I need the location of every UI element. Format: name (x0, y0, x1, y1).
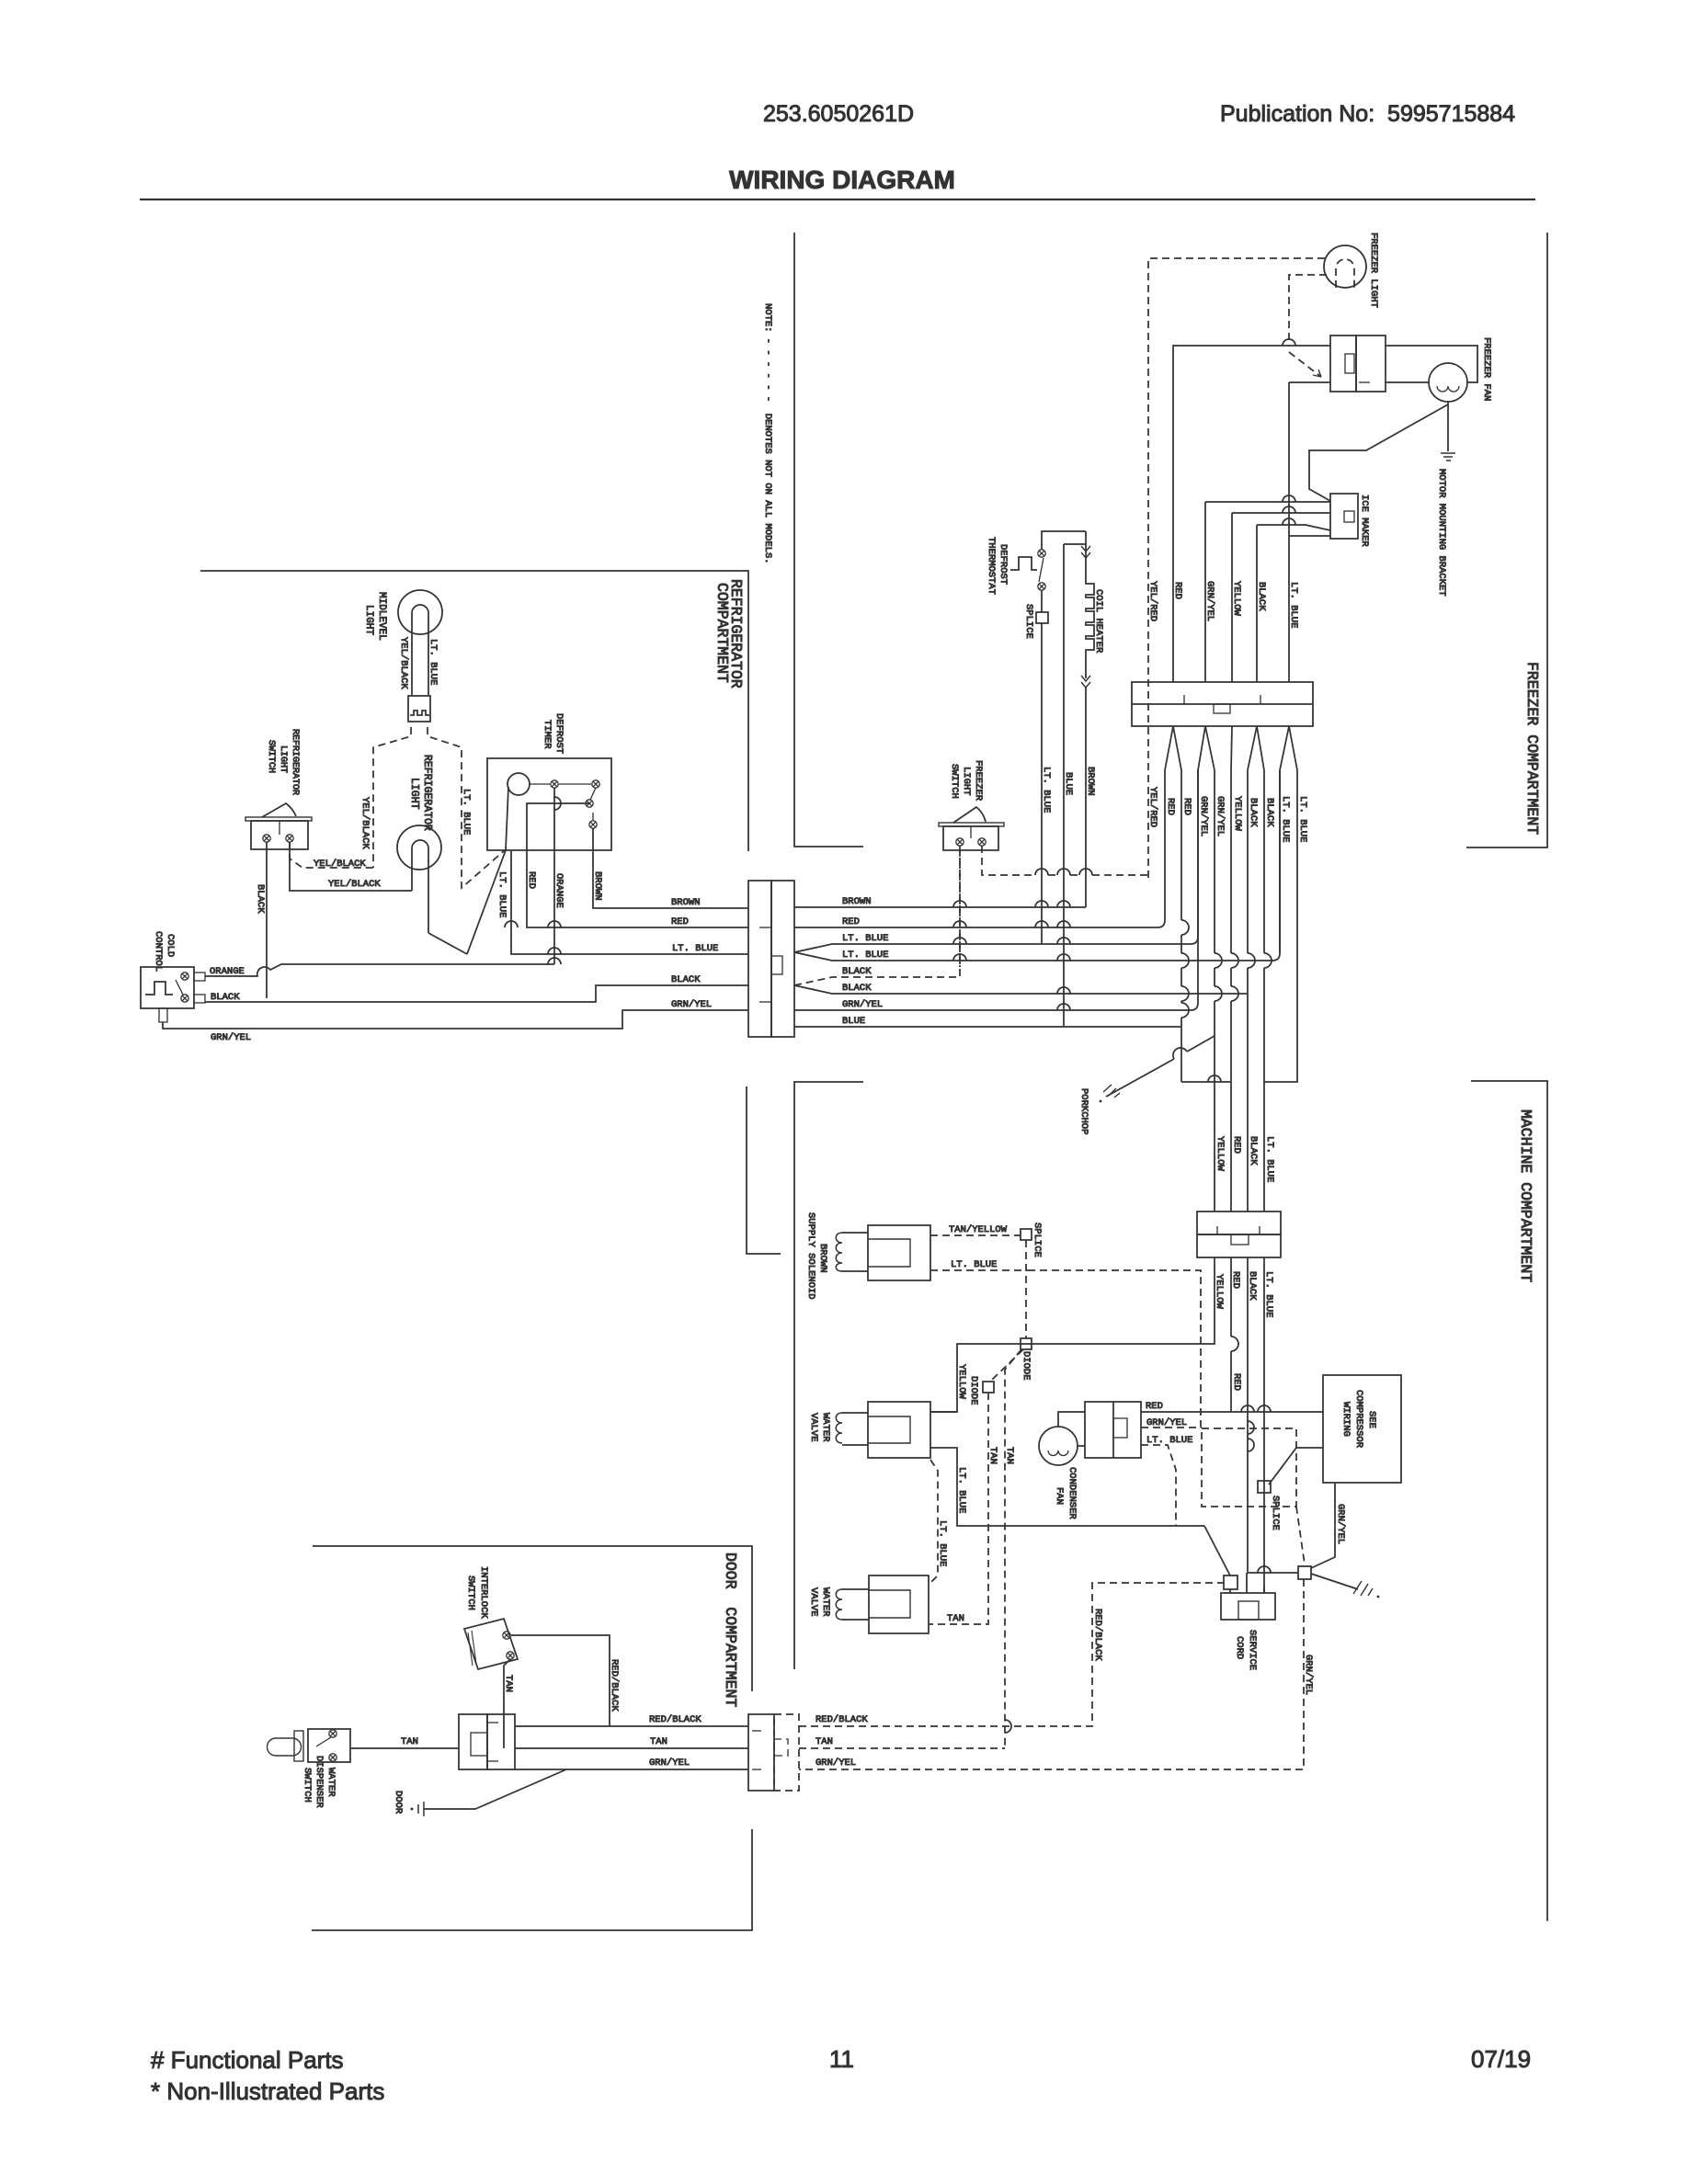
door connector (459, 1714, 487, 1769)
wire BROWN bus right of connector (794, 906, 1086, 908)
dashed wire YEL/BLACK switch to midlevel light (290, 842, 373, 868)
splice near service cord (1298, 1566, 1311, 1579)
svg-text:WATERVALVE: WATERVALVE (808, 1413, 831, 1442)
freezer light bulb (1324, 245, 1366, 288)
dashed wire freezer light to fan connector (1289, 275, 1327, 346)
svg-text:LT. BLUE: LT. BLUE (672, 943, 718, 954)
svg-text:REFRIGERATORCOMPARTMENT: REFRIGERATORCOMPARTMENT (713, 579, 745, 688)
wire RED bus right of connector (794, 770, 1165, 927)
svg-text:YEL/BLACK: YEL/BLACK (359, 797, 371, 849)
jog arcs where vertical wires cross LT. BLUE bus (1181, 953, 1189, 968)
svg-text:ORANGE: ORANGE (210, 966, 245, 977)
dashed wire TAN diode to water valve (932, 1393, 988, 1624)
splice TAN/YELLOW (1021, 1229, 1032, 1240)
svg-text:WIRING DIAGRAM: WIRING DIAGRAM (729, 165, 955, 194)
svg-text:LT. BLUE: LT. BLUE (1041, 767, 1052, 813)
jog arcs where vertical wires cross RED bus (1181, 920, 1189, 935)
svg-text:ORANGE: ORANGE (553, 873, 565, 908)
freezer fan motor (1429, 363, 1467, 402)
dashed wire LT. BLUE water valve to lower water valve (930, 1460, 938, 1583)
svg-text:RED: RED (1181, 798, 1192, 815)
interlock switch (464, 1619, 518, 1669)
svg-text:BLACK: BLACK (671, 974, 701, 985)
wire BLACK lower connector to service cord (1248, 1257, 1298, 1573)
defrost thermostat (1010, 557, 1037, 570)
dashed wire TAN right of door connector (799, 1747, 1005, 1749)
wire LT. BLUE freezer fan connector to ice maker and harness (1289, 381, 1330, 383)
dashed wire freezer light switch right lead to YEL/RED (982, 846, 1035, 875)
dashed wire BLACK fork to freezer light switch (794, 845, 960, 985)
splice at service cord left pin (1224, 1575, 1237, 1589)
svg-text:LT. BLUE: LT. BLUE (951, 1259, 997, 1270)
supply solenoid connector (868, 1225, 930, 1280)
svg-text:RED: RED (526, 871, 537, 889)
refrigerator compartment boundary (200, 571, 748, 851)
svg-text:DIODE: DIODE (968, 1376, 979, 1405)
svg-text:DOOR COMPARTMENT: DOOR COMPARTMENT (722, 1553, 739, 1707)
wire LT. BLUE splice to bus (1041, 623, 1043, 944)
water valve connector (lower) (869, 1575, 929, 1633)
defrost timer terminals (551, 780, 558, 788)
svg-text:BLACK: BLACK (1248, 798, 1259, 827)
dashed wire LT. BLUE condenser fan connector (1141, 1445, 1176, 1526)
wire staircase to lower connector RED pin (1181, 1081, 1231, 1083)
machine compartment divider line right (794, 1082, 863, 1669)
svg-text:YEL/BLACK: YEL/BLACK (328, 879, 381, 890)
svg-text:MOTOR MOUNTING BRACKET: MOTOR MOUNTING BRACKET (1436, 469, 1447, 597)
svg-text:GRN/YEL: GRN/YEL (1146, 1417, 1187, 1428)
wire ORANGE vertical from timer (553, 788, 555, 964)
svg-text:FREEZER COMPARTMENT: FREEZER COMPARTMENT (1523, 662, 1541, 835)
svg-text:LT. BLUE: LT. BLUE (1280, 796, 1291, 842)
svg-text:LT. BLUE: LT. BLUE (461, 789, 472, 835)
door compartment boundary bottom (312, 1829, 752, 1930)
title underline rule (140, 199, 1535, 200)
svg-text:LT. BLUE: LT. BLUE (1146, 1435, 1192, 1446)
svg-text:BLACK: BLACK (842, 983, 872, 994)
defrost timer (487, 758, 611, 850)
splice on LT. BLUE wire (1258, 1481, 1271, 1493)
water valve coil (lower) (836, 1589, 842, 1620)
freezer harness connector block (1132, 682, 1313, 726)
svg-text:BROWN: BROWN (1085, 767, 1096, 796)
door-machine connector solid half (748, 1714, 774, 1791)
svg-text:BLACK: BLACK (1264, 798, 1275, 827)
dashed wire TAN branch to door (1005, 1349, 1021, 1748)
svg-text:BROWN: BROWN (817, 1244, 828, 1273)
svg-text:BLACK: BLACK (842, 966, 872, 977)
wire LT. BLUE refrigerator light to bus (428, 933, 467, 954)
dashed wire YEL/RED freezer light (1148, 258, 1325, 878)
svg-text:WATERVALVE: WATERVALVE (808, 1587, 831, 1617)
svg-text:YEL/BLACK: YEL/BLACK (398, 637, 409, 689)
wire RED/BLACK interlock switch (511, 1635, 610, 1726)
wire RED lower connector to condenser fan (1141, 1257, 1231, 1412)
wire GRN/YEL door connector to right connector (515, 1769, 748, 1770)
svg-text:RED/BLACK: RED/BLACK (1092, 1609, 1103, 1661)
midlevel light bulb (398, 590, 442, 634)
svg-text:RED: RED (1165, 798, 1176, 815)
water valve connector (upper) (868, 1402, 930, 1458)
ground motor mounting bracket (1441, 452, 1455, 454)
dashed GRN/YEL loop rectangle (1202, 1428, 1296, 1507)
svg-text:BROWN: BROWN (842, 896, 872, 907)
svg-text:GRN/YEL: GRN/YEL (211, 1032, 251, 1043)
svg-text:BROWN: BROWN (592, 871, 603, 901)
svg-text:YELLOW: YELLOW (1215, 1136, 1226, 1172)
svg-text:RED: RED (1172, 582, 1183, 599)
dashed wire TAN/YELLOW solenoid to splice (930, 1234, 1021, 1236)
dashed wire RED/BLACK door to service cord splice (799, 1583, 1224, 1726)
wire RED pair below connector (1165, 726, 1173, 770)
wire YELLOW below connector to lower connector (1231, 726, 1232, 1211)
wire freezer fan to motor mounting bracket ground (1447, 402, 1449, 451)
svg-text:253.6050261D: 253.6050261D (763, 101, 914, 127)
svg-text:BLUE: BLUE (1063, 772, 1074, 795)
wire RED condenser fan to compressor (1231, 1411, 1323, 1413)
wire LT. BLUE lower connector to service cord (1263, 1257, 1265, 1593)
svg-text:DOOR: DOOR (393, 1791, 404, 1814)
svg-text:GRN/YEL: GRN/YEL (1335, 1504, 1346, 1544)
wire LT. BLUE defrost timer to bus (511, 850, 748, 954)
wire BLACK solid fork right of connector (794, 985, 1248, 994)
freezer compartment boundary (1466, 233, 1547, 847)
wire YELLOW water valve top lead (930, 1411, 957, 1413)
svg-text:RED: RED (1146, 1401, 1163, 1412)
svg-text:TAN: TAN (815, 1736, 833, 1747)
svg-text:YEL/RED: YEL/RED (1147, 787, 1158, 827)
svg-text:RED/BLACK: RED/BLACK (649, 1714, 701, 1725)
wire BLUE to coil heater top (1064, 544, 1086, 1027)
svg-text:LT. BLUE: LT. BLUE (496, 871, 508, 917)
svg-text:DEFROSTTIMER: DEFROSTTIMER (542, 713, 565, 754)
svg-text:# Functional Parts: # Functional Parts (151, 2046, 344, 2074)
machine compartment divider line left (747, 1086, 781, 1254)
svg-text:GRN/YEL: GRN/YEL (1198, 796, 1209, 836)
wire splice to compressor (1269, 1448, 1323, 1484)
svg-text:LT. BLUE: LT. BLUE (1297, 796, 1308, 842)
wire LT. BLUE pair below connector (1280, 726, 1289, 953)
wire BLACK pair below connector (1248, 726, 1257, 1211)
wire GRN/YEL compressor to splice (1311, 1483, 1335, 1568)
wire BLACK to ice maker (1257, 525, 1330, 530)
diode on TAN wire (983, 1382, 994, 1393)
wire LT. BLUE upper fork right of connector (794, 770, 1198, 952)
svg-text:ICE MAKER: ICE MAKER (1359, 495, 1370, 547)
svg-text:LT. BLUE: LT. BLUE (428, 639, 439, 685)
ground lead from splice (1311, 1574, 1358, 1589)
dashed wire GRN/YEL splice to door connector (799, 1579, 1304, 1769)
svg-text:LT. BLUE: LT. BLUE (956, 1467, 967, 1513)
svg-text:SUPPLY SOLENOID: SUPPLY SOLENOID (805, 1212, 816, 1300)
wire freezer fan connector to fan (1386, 346, 1477, 382)
svg-text:PORKCHOP: PORKCHOP (1078, 1088, 1089, 1134)
dashed leads below midlevel light connector (373, 727, 411, 868)
dashed wire splice to diode chain (1025, 1240, 1027, 1338)
wires condenser fan to connector (1058, 1412, 1085, 1427)
svg-text:LT. BLUE: LT. BLUE (842, 933, 888, 944)
svg-text:MACHINE COMPARTMENT: MACHINE COMPARTMENT (1517, 1109, 1534, 1282)
central harness connector (748, 881, 771, 1037)
wire GRN/YEL to ice maker (1205, 501, 1330, 503)
svg-text:RED: RED (842, 916, 860, 927)
diode on yellow wire (1021, 1338, 1032, 1349)
wire LT. BLUE to service cord splice (1204, 1526, 1230, 1575)
svg-text:YEL/BLACK: YEL/BLACK (314, 859, 366, 870)
svg-text:BLUE: BLUE (842, 1016, 865, 1027)
svg-text:GRN/YEL: GRN/YEL (842, 999, 883, 1010)
wire GRN/YEL pair below connector (1198, 726, 1205, 770)
freezer fan connector (1330, 336, 1356, 392)
wire RED/BLACK door connector to right connector (515, 1725, 748, 1727)
svg-text:SPLICE: SPLICE (1023, 604, 1034, 639)
jog arc where RED wire crosses GRN/YEL bus (1181, 1003, 1189, 1018)
wire TAN dispenser switch to door connector (350, 1747, 459, 1749)
svg-text:BLACK: BLACK (255, 884, 266, 914)
wire BLUE right of connector (794, 1026, 1181, 1028)
coil heater element (1081, 546, 1090, 558)
service cord (1221, 1593, 1275, 1620)
wire RED to freezer fan connector (1173, 346, 1330, 682)
svg-text:FREEZERLIGHTSWITCH: FREEZERLIGHTSWITCH (949, 760, 984, 802)
wire LT. BLUE water valve bottom lead (930, 1448, 1204, 1526)
svg-text:NOTE: - - - - - - DENOTES NOT: NOTE: - - - - - - DENOTES NOT ON ALL MOD… (762, 303, 773, 564)
svg-text:YELLOW: YELLOW (1232, 796, 1243, 832)
svg-text:LT. BLUE: LT. BLUE (842, 950, 888, 961)
door compartment boundary top (313, 1546, 752, 1691)
svg-text:TAN: TAN (947, 1613, 964, 1624)
svg-text:COIL HEATER: COIL HEATER (1093, 589, 1104, 654)
svg-text:LT. BLUE: LT. BLUE (1288, 582, 1299, 628)
wire ORANGE cold control to defrost timer (205, 964, 554, 976)
svg-text:SPLICE: SPLICE (1270, 1496, 1281, 1530)
lower harness connector block (1197, 1211, 1281, 1234)
wire BLACK vertical to harness (1256, 525, 1258, 682)
svg-text:GRN/YEL: GRN/YEL (1215, 796, 1226, 836)
wire GRN/YEL cold control to connector (163, 1010, 748, 1029)
wire YELLOW lower connector to water valve (930, 1257, 1215, 1412)
dashed wire LT. BLUE solenoid to compressor loop (930, 1269, 1028, 1271)
svg-text:DIODE: DIODE (1021, 1351, 1032, 1381)
svg-text:Publication No: 5995715884: Publication No: 5995715884 (1220, 101, 1515, 127)
svg-text:TAN: TAN (650, 1736, 667, 1747)
svg-text:TAN: TAN (987, 1447, 998, 1464)
freezer light switch (939, 823, 1004, 826)
svg-text:07/19: 07/19 (1471, 2045, 1531, 2073)
svg-text:GRN/YEL: GRN/YEL (815, 1757, 856, 1769)
refrigerator light switch (245, 817, 312, 821)
svg-text:RED: RED (671, 916, 689, 927)
wire GRN/YEL vertical to harness (1204, 502, 1206, 682)
jog arcs where vertical wires cross BLACK bus (1181, 986, 1189, 1001)
dashed wire freezer light switch left lead (959, 846, 961, 967)
wire BLACK from refrigerator light switch (266, 842, 268, 998)
wire from timer motor to box corner (506, 787, 508, 850)
svg-text:TAN/YELLOW: TAN/YELLOW (949, 1224, 1008, 1235)
svg-text:RED/BLACK: RED/BLACK (815, 1714, 868, 1725)
svg-text:RED: RED (1231, 1373, 1242, 1391)
wire BROWN coil heater to bus (1085, 688, 1087, 907)
svg-text:TAN: TAN (401, 1736, 418, 1747)
wire LT. BLUE bus hop (548, 958, 561, 964)
condenser fan motor (1039, 1427, 1078, 1465)
svg-text:RED: RED (1231, 1136, 1242, 1154)
supply solenoid coil (836, 1233, 842, 1271)
wire YEL/BLACK switch to refrigerator light (290, 842, 412, 891)
compressor box (1323, 1375, 1401, 1483)
midlevel light connector (408, 696, 430, 722)
wire TAN interlock switch (504, 1659, 510, 1748)
wire GRN/YEL right of connector (794, 770, 1198, 1010)
water dispenser switch (308, 1729, 350, 1762)
svg-text:FREEZER FAN: FREEZER FAN (1481, 337, 1492, 401)
wire freezer fan to ice maker (1309, 404, 1448, 501)
wire TAN door connector to right connector (515, 1747, 748, 1749)
ice maker connector (1330, 494, 1358, 539)
svg-text:BROWN: BROWN (671, 897, 701, 908)
wire BROWN defrost timer to bus (593, 828, 748, 908)
service cord pins (1229, 1589, 1231, 1593)
svg-text:YELLOW: YELLOW (956, 1364, 967, 1400)
condenser fan connector (1085, 1402, 1141, 1458)
porkchop ground lead (1106, 1036, 1215, 1097)
svg-text:GRN/YEL: GRN/YEL (1303, 1655, 1314, 1695)
center divider line between refrigerator and freezer area (794, 233, 863, 847)
wire LT. BLUE lower fork right of connector (794, 770, 1280, 961)
machine compartment boundary (1471, 1081, 1547, 1921)
wire top defrost thermostat to coil heater (1042, 531, 1086, 550)
svg-text:YEL/RED: YEL/RED (1147, 581, 1158, 621)
wire GRN/YEL to door ground (424, 1769, 566, 1809)
svg-text:GRN/YEL: GRN/YEL (649, 1757, 690, 1769)
water valve coil (upper) (836, 1413, 842, 1443)
svg-text:RED/BLACK: RED/BLACK (609, 1659, 620, 1712)
ground DOOR (418, 1802, 424, 1816)
refrigerator light bulb (397, 825, 441, 870)
splice on defrost thermostat lead (1041, 590, 1043, 612)
cold control (141, 967, 194, 1008)
wire YELLOW vertical to harness (1231, 513, 1233, 682)
defrost timer motor (508, 773, 530, 795)
svg-text:SPLICE: SPLICE (1032, 1223, 1043, 1257)
wire BLACK cold control to connector (205, 985, 748, 1002)
wire TAN water valve lower bottom lead (929, 1623, 932, 1625)
svg-text:TAN: TAN (503, 1675, 514, 1692)
door-machine connector dashed half (774, 1714, 799, 1791)
dashed wire GRN/YEL condenser fan connector (1141, 1427, 1202, 1428)
svg-text:11: 11 (829, 2045, 854, 2073)
wire YELLOW to ice maker (1232, 512, 1330, 514)
wire RED defrost timer to bus (527, 803, 748, 927)
svg-text:GRN/YEL: GRN/YEL (671, 999, 712, 1010)
svg-text:TAN: TAN (1004, 1447, 1015, 1464)
svg-text:BLACK: BLACK (211, 992, 240, 1003)
svg-text:BLACK: BLACK (1248, 1136, 1259, 1166)
svg-text:LT. BLUE: LT. BLUE (1264, 1136, 1275, 1182)
svg-text:FREEZER LIGHT: FREEZER LIGHT (1368, 233, 1379, 308)
svg-text:LT. BLUE: LT. BLUE (937, 1520, 948, 1566)
svg-text:* Non-Illustrated Parts: * Non-Illustrated Parts (151, 2077, 384, 2105)
